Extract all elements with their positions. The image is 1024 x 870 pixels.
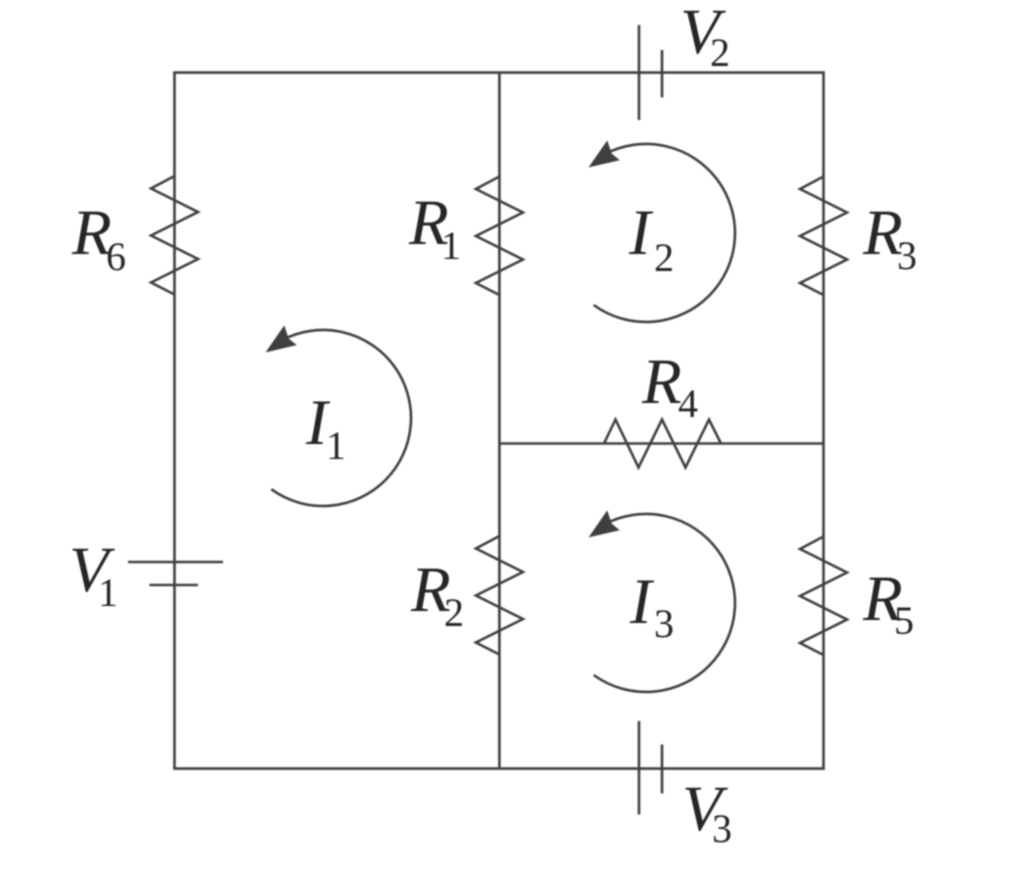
resistor R5 — [800, 537, 847, 656]
mesh current loop I3 (arrowhead) — [590, 512, 618, 536]
wire: left side — [173, 73, 176, 769]
wire: top side — [173, 71, 825, 74]
label V1 — [69, 534, 118, 615]
wire: middle vertical branch — [498, 73, 501, 769]
battery V1 (short plate) — [150, 584, 199, 587]
resistor R3 — [800, 177, 847, 296]
svg-text:3: 3 — [654, 601, 674, 646]
mesh current loop I1 (arrowhead) — [267, 327, 295, 351]
svg-text:3: 3 — [897, 233, 917, 278]
label R6 — [71, 197, 126, 279]
label R2 — [410, 554, 464, 635]
svg-text:2: 2 — [444, 590, 464, 635]
label I3 — [629, 566, 674, 646]
mesh current loop I2 (arc) — [594, 144, 735, 322]
battery V3 (long plate) — [638, 721, 641, 815]
battery V1 (long plate) — [128, 561, 223, 564]
wire: horizontal divider branch (node between I2 and I3 loops) — [499, 442, 823, 445]
label I2 — [628, 197, 674, 280]
label R5 — [862, 563, 914, 643]
svg-text:1: 1 — [326, 423, 346, 468]
battery V2 (short plate) — [661, 50, 664, 98]
label V2 — [680, 0, 730, 75]
svg-text:1: 1 — [98, 570, 118, 615]
svg-text:2: 2 — [654, 235, 674, 280]
label R4 — [641, 346, 698, 426]
resistor R2 — [476, 536, 523, 655]
svg-text:1: 1 — [441, 223, 461, 268]
svg-text:I: I — [629, 566, 655, 638]
label R1 — [408, 187, 461, 268]
mesh current loop I2 (arrowhead) — [590, 142, 618, 166]
resistor R4 — [604, 420, 721, 468]
battery V3 (short plate) — [661, 745, 664, 794]
svg-text:3: 3 — [712, 806, 732, 851]
battery V2 (long plate) — [638, 25, 641, 120]
mesh current loop I3 (arc) — [594, 514, 735, 692]
mesh current loop I1 (arc) — [271, 330, 411, 506]
resistor R1 — [476, 177, 523, 296]
svg-text:4: 4 — [678, 381, 698, 426]
svg-text:6: 6 — [106, 234, 126, 279]
wire: bottom side — [173, 767, 825, 770]
svg-text:I: I — [628, 197, 654, 269]
label R3 — [862, 197, 917, 278]
label V3 — [682, 773, 732, 851]
svg-text:2: 2 — [710, 30, 730, 75]
wire: right side — [822, 73, 825, 769]
label I1 — [305, 387, 346, 468]
svg-text:5: 5 — [894, 598, 914, 643]
svg-text:R: R — [641, 346, 682, 418]
resistor R6 — [151, 176, 198, 295]
